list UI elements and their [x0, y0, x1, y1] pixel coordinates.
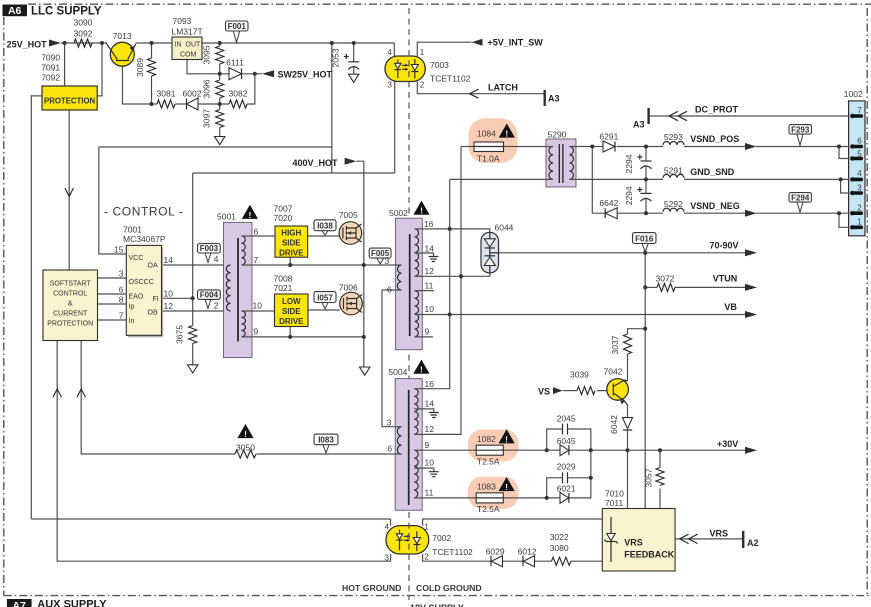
svg-text:F003: F003 [200, 244, 219, 253]
svg-text:6: 6 [387, 285, 392, 295]
svg-text:7011: 7011 [605, 498, 624, 508]
wire DC_PROT [650, 115, 852, 117]
svg-text:3081: 3081 [157, 89, 176, 99]
transformer 5290 [546, 139, 576, 187]
svg-text:COM: COM [180, 52, 197, 59]
svg-text:CURRENT: CURRENT [53, 311, 88, 318]
wire softstart to IC pin8 [98, 303, 127, 305]
wire IC OB pin12 to 5001 pin2 [162, 310, 231, 312]
wire 6021 to join [569, 450, 591, 498]
svg-text:18V SUPPLY: 18V SUPPLY [410, 603, 464, 607]
wire VRS output [675, 538, 742, 540]
wire IC OA pin14 to 5001 pin4 [162, 264, 231, 266]
resistor 3095 [216, 46, 224, 64]
wire softstart feedback left [57, 341, 390, 562]
wire 5001 pin6 to high side drive [242, 235, 276, 237]
svg-text:SIDE: SIDE [282, 239, 301, 248]
transformer 5002 [396, 218, 423, 350]
wire F016 vertical rail [644, 253, 646, 509]
svg-text:2294: 2294 [624, 154, 634, 173]
svg-text:VTUN: VTUN [713, 274, 738, 284]
wire opto 7002 pin1 to VRS box [423, 519, 603, 526]
svg-text:HOT GROUND: HOT GROUND [342, 583, 401, 593]
resistor 3675 [189, 326, 197, 344]
resistor 3072 [657, 283, 675, 291]
wire low side drive bottom stub [289, 327, 291, 337]
wire 400V_HOT feed [357, 161, 364, 265]
wire 2053 stubs [353, 43, 355, 74]
svg-text:IN: IN [175, 42, 182, 49]
svg-text:11: 11 [425, 281, 434, 291]
resistor 3082 [229, 100, 247, 108]
svg-text:5: 5 [857, 150, 862, 159]
svg-text:400V_HOT: 400V_HOT [293, 158, 339, 168]
svg-text:3: 3 [385, 256, 390, 266]
wire opto 7002 pin3 stub [390, 554, 392, 561]
svg-text:Ip: Ip [129, 304, 135, 311]
connector pin 5 [852, 157, 861, 161]
svg-text:7092: 7092 [41, 73, 60, 83]
node FI junction [191, 296, 195, 300]
svg-text:TCET1102: TCET1102 [432, 547, 473, 557]
svg-text:OB: OB [148, 310, 158, 317]
wire 3050 to 5004 pin6 [257, 453, 396, 455]
svg-text:3037: 3037 [610, 335, 620, 354]
wire high side drive to 7005 gate [308, 235, 340, 237]
node SW25V junctions [218, 72, 222, 76]
transformer 5004 [395, 379, 422, 511]
marker I038 [322, 231, 328, 235]
svg-text:OUT: OUT [186, 42, 202, 49]
wire 5001 pin7 stub [242, 264, 254, 266]
svg-text:5002: 5002 [389, 208, 408, 218]
regulator 7093 LM317T [172, 37, 202, 60]
svg-text:SW25V_HOT: SW25V_HOT [278, 70, 333, 80]
svg-text:70-90V: 70-90V [710, 241, 739, 251]
wire 3081 to 6002 [175, 103, 186, 105]
fuse 1084 T1.0A [474, 142, 504, 152]
svg-text:2: 2 [214, 301, 219, 311]
svg-text:2: 2 [857, 204, 862, 213]
svg-text:11: 11 [425, 488, 434, 498]
wire 5002 pin9 stub [415, 336, 433, 338]
svg-text:6002: 6002 [183, 89, 202, 99]
svg-text:A6: A6 [8, 5, 22, 17]
svg-text:FEEDBACK: FEEDBACK [624, 550, 675, 560]
svg-text:EAO: EAO [129, 294, 144, 301]
svg-text:A3: A3 [548, 94, 560, 104]
svg-text:5290: 5290 [548, 130, 567, 140]
svg-text:3089: 3089 [135, 58, 145, 77]
svg-text:8: 8 [119, 295, 124, 305]
transistor 7013 [110, 42, 134, 66]
wire fuse 1084 left [461, 146, 474, 148]
svg-text:F294: F294 [791, 193, 810, 202]
diode 6002 [187, 98, 199, 110]
svg-text:GND_SND: GND_SND [690, 167, 735, 177]
svg-text:10: 10 [425, 304, 435, 314]
svg-text:7005: 7005 [339, 210, 358, 220]
ground below 3675 [188, 365, 198, 373]
svg-text:!: ! [244, 429, 247, 439]
svg-text:12: 12 [425, 424, 435, 434]
svg-text:3039: 3039 [570, 370, 589, 380]
resistor 3081 [157, 100, 175, 108]
node VSND_NEG junctions [644, 211, 648, 215]
input arrow 25V_HOT [49, 40, 61, 47]
svg-text:TCET1102: TCET1102 [430, 74, 471, 84]
svg-text:VB: VB [724, 302, 737, 312]
svg-text:4: 4 [214, 254, 219, 264]
svg-text:14: 14 [425, 399, 435, 409]
marker F004 [205, 298, 211, 308]
svg-text:DRIVE: DRIVE [279, 249, 304, 258]
connector 1002 [849, 101, 865, 236]
diode 6291 [603, 141, 615, 152]
marker I083 [323, 445, 329, 453]
transformer 5001 [224, 222, 253, 357]
svg-text:7003: 7003 [430, 60, 449, 70]
node 3081 row junctions [150, 102, 154, 106]
highlight blob fuse 1083 [468, 477, 519, 509]
wire 6291 to 5293 [617, 146, 664, 148]
node line A junctions [448, 227, 452, 231]
vrs feedback block 7010 7011 [602, 509, 675, 572]
svg-text:VCC: VCC [129, 255, 144, 262]
svg-text:- CONTROL -: - CONTROL - [104, 205, 184, 219]
wire 7006 drain source rail [363, 265, 365, 337]
wire 5001 pin10 to low side drive [242, 310, 275, 312]
wire 3057 stubs [659, 450, 661, 508]
connector pin 6 [852, 145, 861, 149]
diode 6111 [229, 68, 242, 80]
svg-text:MC34067P: MC34067P [123, 234, 166, 244]
wire 5004 pin9 to fuse 1082 [422, 449, 476, 451]
wire protection left to bottom rail [31, 96, 390, 519]
svg-text:2294: 2294 [624, 186, 634, 205]
node 2029 junctions [589, 476, 593, 480]
capacitor 2045 [563, 424, 568, 435]
wire 3089 top stub [151, 43, 153, 58]
resistor 3089 [148, 58, 156, 76]
svg-text:16: 16 [425, 379, 435, 389]
output arrow VSND_NEG [745, 210, 757, 217]
svg-text:+5V_INT_SW: +5V_INT_SW [488, 38, 544, 48]
svg-text:T2.5A: T2.5A [477, 504, 500, 514]
svg-text:14: 14 [164, 255, 174, 265]
wire 6045 to +30V arrow [569, 449, 745, 451]
svg-text:SIDE: SIDE [282, 307, 301, 316]
wire high side drive bottom stub [289, 257, 291, 265]
protection module 7090 7091 7092 [42, 86, 97, 110]
svg-text:1002: 1002 [844, 89, 863, 99]
svg-text:+30V: +30V [717, 439, 738, 449]
wire 70-90V run [499, 252, 746, 254]
node F016 rail junctions [643, 251, 647, 255]
wire 2294a stubs [645, 147, 647, 180]
svg-text:3072: 3072 [656, 274, 675, 284]
svg-text:OSCCC: OSCCC [129, 279, 154, 286]
svg-text:3082: 3082 [229, 89, 248, 99]
svg-text:PROTECTION: PROTECTION [44, 97, 95, 106]
node half bridge junctions [288, 263, 292, 267]
svg-text:3090: 3090 [74, 18, 93, 28]
softstart control block [43, 270, 98, 341]
svg-text:LATCH: LATCH [488, 83, 518, 93]
wire 5002 pin16 stub [415, 228, 423, 230]
svg-text:6291: 6291 [599, 132, 618, 142]
node 25V junctions [63, 41, 67, 45]
wire 5002 pin6 down to 5004 pin3 [382, 290, 396, 427]
svg-text:3675: 3675 [175, 325, 185, 344]
resistor 3096 [216, 80, 224, 98]
svg-text:VS: VS [538, 387, 550, 397]
svg-text:1: 1 [424, 523, 429, 532]
wire 2294b stubs [645, 179, 647, 213]
transistor 7042 [607, 379, 629, 401]
marker F003 [205, 252, 211, 262]
diode 6045 [560, 445, 569, 456]
output arrow VSND_POS [745, 143, 757, 150]
wire softstart to IC pin6 [98, 293, 127, 295]
svg-text:AUX SUPPLY: AUX SUPPLY [37, 599, 107, 607]
IC 7001 MC34067P [128, 247, 163, 337]
wire 5004 pin11 to fuse 1083 [422, 497, 476, 499]
svg-text:F016: F016 [635, 234, 654, 243]
diode 6642 [605, 208, 617, 219]
driver block 7007 7020 high side [275, 226, 308, 257]
warning triangle at 5001 [242, 205, 258, 219]
svg-text:VRS: VRS [624, 538, 643, 548]
svg-text:9: 9 [254, 327, 259, 337]
ground below 2053 [349, 74, 359, 82]
fuse 1082 T2.5A [476, 445, 503, 455]
svg-text:3: 3 [119, 269, 124, 279]
warning triangle at 5004 [413, 360, 429, 374]
wire 5002 pin11 stub [415, 290, 434, 292]
svg-text:7013: 7013 [113, 31, 132, 41]
svg-text:3092: 3092 [74, 29, 93, 39]
svg-text:6029: 6029 [486, 547, 505, 557]
svg-text:SOFTSTART: SOFTSTART [50, 281, 92, 288]
wire SW25V to 3082 [247, 74, 255, 104]
section label A7 [7, 599, 464, 607]
svg-text:3: 3 [388, 81, 393, 90]
svg-text:LOW: LOW [282, 297, 301, 306]
svg-text:VSND_NEG: VSND_NEG [690, 201, 740, 211]
svg-text:F001: F001 [228, 22, 247, 31]
inductor 5291 [663, 174, 684, 177]
svg-text:7091: 7091 [41, 63, 60, 73]
wire 5004 pin6 stub [395, 453, 401, 455]
svg-text:1083: 1083 [477, 482, 496, 492]
svg-text:VSND_POS: VSND_POS [690, 134, 739, 144]
signal arrow up on feedback left [53, 389, 61, 397]
wire 5004 pin14 stub and ground [414, 409, 434, 413]
wire VCC drop to pin15 [99, 147, 127, 254]
svg-text:16: 16 [424, 219, 434, 229]
resistor 3039 [577, 387, 595, 395]
wire IC FI pin10 [162, 297, 193, 299]
wire VB rail [422, 314, 745, 316]
svg-text:A2: A2 [747, 538, 759, 548]
wire fuse 1082 to +30V [503, 449, 560, 451]
svg-text:!: ! [248, 210, 251, 220]
svg-text:5293: 5293 [664, 132, 683, 142]
svg-text:!: ! [420, 365, 423, 375]
connector pin 7 [852, 114, 861, 118]
svg-text:10: 10 [425, 458, 435, 468]
svg-text:VRS: VRS [710, 529, 729, 539]
wire 6002 to 3096 node [198, 103, 229, 105]
svg-text:In: In [129, 318, 135, 325]
wire 3089 bottom to 3081 row [151, 76, 153, 104]
resistor 3090 3092 [74, 39, 92, 47]
svg-text:I057: I057 [317, 293, 333, 302]
svg-text:6111: 6111 [226, 58, 244, 68]
driver block 7008 7021 low side [275, 294, 309, 327]
wire 5001 pin9 stub [242, 336, 254, 338]
wire fuse 1084 to 5290 [504, 146, 554, 148]
hot cold isolation dashed line [408, 8, 410, 600]
svg-text:4: 4 [385, 523, 390, 532]
connector stub A3 LATCH [544, 90, 546, 106]
wire low side drive to 7006 gate [308, 309, 340, 311]
wire 25V to VCC link [331, 43, 333, 173]
resistor 3022 3080 [552, 557, 572, 565]
node VSND_POS junctions [590, 145, 594, 149]
inductor 5293 [663, 142, 684, 146]
svg-text:3022: 3022 [550, 532, 569, 542]
wire line A 5290 to 5004 pin16 [422, 179, 450, 388]
wire 5002 pin10 stub [415, 314, 423, 316]
svg-text:LLC SUPPLY: LLC SUPPLY [31, 6, 102, 18]
svg-text:T2.5A: T2.5A [477, 457, 500, 467]
wire opto 7002 pin2 to 6029 [423, 554, 491, 561]
wire 6291 6642 link [592, 147, 604, 214]
svg-text:3057: 3057 [644, 468, 654, 487]
wire 5001 pin9 row [242, 337, 364, 367]
node +30V junctions [545, 448, 549, 452]
wire 5002 pin16 to 6044 [422, 229, 490, 232]
wire protection right link [97, 43, 102, 96]
svg-text:5001: 5001 [217, 212, 236, 222]
resistor 3057 [656, 468, 664, 486]
svg-text:A7: A7 [12, 600, 26, 607]
svg-text:14: 14 [425, 244, 435, 254]
wire 5002 pin14 stub and ground [415, 253, 434, 257]
marker F294 [797, 202, 803, 213]
svg-text:2053: 2053 [331, 48, 341, 67]
svg-text:9: 9 [425, 327, 430, 337]
connector stub A3 DC_PROT [647, 108, 649, 124]
svg-text:4: 4 [388, 48, 393, 57]
dual diode 6044 [481, 232, 499, 273]
svg-text:15: 15 [114, 245, 124, 255]
warning triangle at 1083 [499, 477, 515, 491]
wire LM317 out to opto 7003 pin 4 [202, 42, 394, 44]
node GND_SND junctions [644, 177, 648, 181]
mosfet 7005 [339, 222, 362, 245]
node line B junction [459, 274, 463, 278]
svg-text:3096: 3096 [202, 79, 212, 98]
wire 3037 to 7042 collector [627, 354, 629, 381]
capacitor 2053 [348, 61, 359, 63]
tap arrow +5V_INT_SW [472, 39, 483, 46]
output arrow +30V [745, 447, 757, 454]
svg-text:7006: 7006 [339, 283, 358, 293]
wire 5004 pin11 stub [414, 497, 423, 499]
svg-text:A3: A3 [633, 120, 645, 130]
wire VSND_NEG run [684, 212, 852, 214]
svg-text:LM317T: LM317T [172, 27, 203, 37]
marker F293 [797, 134, 803, 146]
svg-text:7042: 7042 [604, 367, 623, 377]
wire 3095 stubs [219, 43, 221, 74]
diode 6042 [623, 418, 633, 429]
svg-text:!: ! [505, 434, 508, 444]
wire 7090 protection feed [64, 43, 66, 86]
connector pin 4 [852, 178, 861, 182]
svg-text:!: ! [420, 206, 423, 216]
input arrow 400V_HOT [345, 158, 357, 165]
wire SW25V row [220, 73, 262, 75]
svg-text:6021: 6021 [557, 484, 576, 494]
wire 6642 to 5292 [617, 212, 663, 214]
svg-text:2029: 2029 [557, 462, 576, 472]
signal arrow up on feedback right [77, 389, 85, 397]
svg-text:I083: I083 [318, 436, 334, 445]
svg-text:6642: 6642 [599, 198, 618, 208]
svg-text:6: 6 [119, 285, 124, 295]
svg-text:4: 4 [857, 169, 862, 178]
wire 5002 pin6 stub [382, 289, 402, 291]
wire VSND_NEG branch pin1 [839, 213, 852, 227]
warning triangle at 1082 [499, 429, 515, 443]
svg-text:1: 1 [857, 218, 862, 227]
svg-text:PROTECTION: PROTECTION [47, 321, 93, 328]
svg-text:5292: 5292 [664, 199, 683, 209]
svg-text:DRIVE: DRIVE [279, 317, 304, 326]
svg-text:2: 2 [420, 81, 425, 90]
svg-text:COLD GROUND: COLD GROUND [416, 583, 482, 593]
svg-text:10: 10 [253, 301, 263, 311]
wire opto 7003 pin3 run [193, 82, 395, 174]
wire 6029 to 6012 [503, 560, 523, 562]
fuse 1083 T2.5A [476, 493, 503, 503]
svg-text:7: 7 [254, 255, 259, 265]
wire VS to 3039 [563, 390, 578, 392]
warning triangle at 1084 [499, 124, 515, 138]
svg-text:6042: 6042 [609, 415, 619, 434]
marker I057 [322, 302, 328, 308]
svg-text:1082: 1082 [477, 434, 496, 444]
wire half bridge mid rail [242, 264, 402, 266]
svg-text:&: & [68, 301, 73, 308]
wire 2029 bypass bracket [547, 478, 591, 498]
wire 3072 to VTUN arrow [675, 286, 746, 288]
svg-text:7020: 7020 [274, 213, 293, 223]
svg-text:3: 3 [385, 554, 390, 563]
svg-text:CONTROL: CONTROL [53, 291, 87, 298]
wire 2045 bypass bracket [547, 429, 591, 450]
wire 5004 pin9 stub [414, 449, 423, 451]
wire VCC net top run [99, 146, 332, 148]
svg-text:6: 6 [857, 137, 862, 146]
wire 5002 pin3 stub [396, 264, 402, 266]
signal arrows VRS [680, 534, 698, 543]
wire 5004 pin16 stub [414, 388, 423, 390]
